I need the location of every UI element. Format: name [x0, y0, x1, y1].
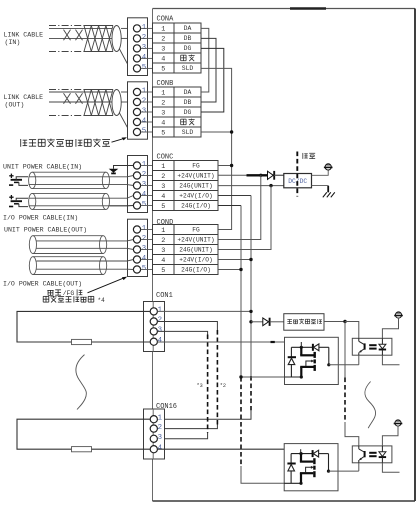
svg-text:1: 1 — [161, 227, 165, 235]
wire stubs COND strip to table — [141, 230, 153, 270]
svg-text:*2: *2 — [220, 383, 226, 389]
wire +24V(UNIT) from CONC to DC/DC with thick section — [218, 174, 284, 176]
svg-text:1: 1 — [142, 161, 147, 169]
internal power terminal symbol — [325, 164, 331, 170]
svg-text:UNIT POWER CABLE(IN): UNIT POWER CABLE(IN) — [3, 163, 82, 170]
svg-text:24G(I/O): 24G(I/O) — [181, 203, 211, 210]
MOSFET output wire to optocoupler emitter CON16 — [329, 470, 359, 472]
svg-text:3: 3 — [161, 247, 165, 255]
svg-text:3: 3 — [142, 245, 146, 253]
internal power terminal for CON1 LED — [395, 312, 401, 318]
diode D1 feeding DC/DC — [268, 171, 284, 180]
DC/DC output to internal power terminal — [312, 170, 329, 175]
wires cable to COND pins 4,5 — [107, 260, 134, 270]
svg-text:3: 3 — [161, 183, 165, 191]
table COND (FG +24V 24G) — [153, 225, 219, 275]
LINK CABLE (OUT) twisted pair cable — [49, 90, 133, 133]
svg-text:2: 2 — [142, 97, 146, 105]
svg-text:2: 2 — [158, 424, 162, 432]
junction CON1 pin1 — [249, 310, 252, 313]
svg-text:SLD: SLD — [182, 129, 194, 136]
svg-text:2: 2 — [161, 99, 165, 107]
optocoupler emitter lead CON1 — [358, 355, 360, 365]
svg-text:4: 4 — [161, 55, 165, 63]
battery wires to I/O power cable — [16, 198, 28, 206]
optocoupler for CON16 — [352, 446, 392, 463]
svg-text:3: 3 — [142, 107, 146, 115]
diode D2 from +24V rail — [249, 318, 283, 326]
svg-text:DB: DB — [184, 35, 192, 42]
CON1 pin2 wire with dashed continuation (*2) — [157, 322, 217, 429]
junction 24G(I/O) at COND pin5 — [218, 268, 243, 271]
LED cathode return wire CON16 — [382, 463, 399, 473]
svg-text:+24V(I/O): +24V(I/O) — [179, 193, 212, 200]
wire stubs CONA strip to table — [141, 28, 153, 68]
svg-text:DA: DA — [184, 25, 192, 32]
svg-text:1: 1 — [142, 24, 147, 32]
svg-text:2: 2 — [142, 235, 146, 243]
svg-text:DB: DB — [184, 99, 192, 106]
junction 24G(UNIT) — [269, 184, 272, 187]
svg-text:1: 1 — [161, 89, 165, 97]
svg-text:4: 4 — [161, 119, 165, 127]
wire power terminal to LED anode CON16 — [382, 426, 398, 446]
wire DB: CONA pin2 to CONB pin2 — [201, 38, 216, 102]
label power/FG direct-mount connector *4 (CJK) with arrow — [43, 277, 127, 304]
CON16 pin4 wire to output circuit — [157, 448, 300, 450]
svg-text:(OUT): (OUT) — [5, 102, 25, 109]
module boundary box — [153, 9, 416, 502]
earth terminal at CONC FG pin — [109, 166, 134, 174]
junction +24V(UNIT) — [259, 174, 262, 177]
svg-text:4: 4 — [142, 117, 147, 125]
MOSFET output wire to optocoupler emitter — [329, 364, 359, 366]
svg-text:FG: FG — [192, 227, 200, 234]
svg-text:FG: FG — [192, 163, 200, 170]
wire power terminal to LED anode CON1 — [382, 318, 398, 338]
constant voltage circuit box (CJK) — [284, 314, 324, 331]
CON1 pin4 wire to output circuit — [157, 341, 301, 343]
wires cable to CONC pins 2,3 — [110, 176, 134, 186]
wire DA: CONA pin1 to CONB pin1 — [201, 28, 209, 92]
svg-text:+24V(UNIT): +24V(UNIT) — [177, 237, 214, 244]
svg-text:4: 4 — [142, 54, 147, 62]
junction FG at CONC — [230, 164, 233, 167]
external load loop on CON16 pins 1-4 — [17, 419, 150, 449]
svg-text:CONA: CONA — [157, 16, 175, 24]
junction +24V(I/O) at COND pin4 — [218, 258, 253, 261]
svg-text:3: 3 — [161, 45, 165, 53]
svg-text:2: 2 — [158, 317, 162, 325]
CON1 pin1 wire to +24V rail — [157, 310, 251, 312]
connector strip CON1 (4 pins) — [144, 302, 165, 352]
svg-text:*3: *3 — [197, 383, 203, 389]
svg-text:*4: *4 — [98, 297, 106, 304]
24G(UNIT) rail down to COND pin3 — [218, 186, 271, 250]
LED cathode return wire CON1 — [382, 355, 399, 365]
label insulation (CJK) — [302, 153, 304, 159]
connector strip for CONA (5 pins) — [128, 18, 148, 76]
wire DG: CONA pin3 to CONB pin3 — [201, 48, 224, 112]
CON1 box bottom wire to 24G rail junction — [239, 375, 284, 378]
continuation squiggle between CON1 and CON16 loads (left) — [76, 355, 86, 410]
svg-text:5: 5 — [161, 203, 165, 211]
UNIT POWER CABLE(OUT) cylinder — [29, 236, 106, 254]
table CONC (FG +24V 24G) — [153, 161, 219, 211]
svg-text:4: 4 — [142, 191, 147, 199]
junction SLD at CONB — [230, 130, 233, 133]
table CONA (DA DB DG spare SLD) — [153, 23, 202, 73]
svg-text:24G(UNIT): 24G(UNIT) — [179, 183, 212, 190]
UNIT POWER CABLE(IN) cylinder — [29, 172, 110, 188]
svg-text:DA: DA — [184, 89, 192, 96]
svg-text:2: 2 — [142, 171, 146, 179]
wire 24G(UNIT) from CONC to DC/DC — [218, 185, 284, 187]
load component (fuse) on CON16 loop — [72, 447, 92, 452]
svg-text:UNIT POWER CABLE(OUT): UNIT POWER CABLE(OUT) — [4, 226, 87, 233]
continuation squiggle between CON1 and CON16 circuits (right) — [365, 382, 376, 429]
I/O POWER CABLE(OUT) cylinder — [29, 257, 106, 275]
wire stubs CONC strip to table — [141, 166, 153, 206]
svg-text:3: 3 — [158, 327, 162, 335]
svg-text:4: 4 — [161, 257, 165, 265]
battery for I/O POWER (IN) — [9, 195, 22, 207]
svg-text:I/O POWER CABLE(IN): I/O POWER CABLE(IN) — [3, 214, 78, 221]
svg-text:1: 1 — [161, 25, 165, 33]
svg-text:4: 4 — [158, 337, 163, 345]
table CONB (DA DB DG spare SLD) — [153, 87, 202, 137]
CON16 pin4 wire entry corner into box — [300, 449, 302, 453]
LINK CABLE (IN) twisted pair cable — [49, 26, 133, 69]
svg-text:5: 5 — [142, 127, 146, 135]
svg-text:2: 2 — [161, 35, 165, 43]
svg-text:2: 2 — [161, 173, 165, 181]
svg-text:24G(I/O): 24G(I/O) — [181, 267, 211, 274]
24G(I/O) rail from CONC down to CON16 — [218, 206, 300, 484]
svg-text:24G(UNIT): 24G(UNIT) — [179, 247, 212, 254]
svg-text:+24V(UNIT): +24V(UNIT) — [177, 173, 214, 180]
svg-text:4: 4 — [161, 193, 165, 201]
wires cable to CONC pins 4,5 — [110, 196, 134, 206]
chassis ground symbol — [323, 186, 335, 197]
internal power terminal for CON16 LED — [395, 420, 401, 426]
wire SLD/FG bus: CONA pin5 - CONB pin5 - CONC FG - COND FG — [201, 68, 232, 229]
svg-text:1: 1 — [142, 225, 147, 233]
insulation dashed line at DC/DC — [296, 152, 298, 197]
svg-text:LINK CABLE: LINK CABLE — [4, 94, 44, 101]
svg-text:1: 1 — [158, 414, 163, 422]
optocoupler emitter lead CON16 — [358, 463, 360, 471]
wire stubs CONB strip to table — [141, 92, 153, 132]
svg-text:4: 4 — [158, 444, 163, 452]
svg-text:5: 5 — [142, 265, 146, 273]
wire constant voltage box to optocoupler collector feed — [324, 320, 359, 339]
svg-text:5: 5 — [142, 64, 146, 72]
label communication direct-mount connector (CJK) with arrow — [21, 137, 127, 147]
external load loop on CON1 pins 1-4 — [17, 311, 150, 342]
load component (fuse) on CON1 loop — [72, 339, 92, 344]
+24V(I/O) rail from CONC down to CON16 — [157, 196, 251, 420]
connector strip CON16 (4 pins) — [144, 409, 165, 459]
+24V(UNIT) rail down to COND pin2 — [218, 175, 261, 239]
svg-text:4: 4 — [142, 255, 147, 263]
DC/DC output to chassis ground — [312, 186, 329, 193]
output MOSFET protection circuit box for CON1 — [285, 337, 339, 384]
svg-text:LINK CABLE: LINK CABLE — [4, 32, 44, 39]
svg-text:3: 3 — [161, 109, 165, 117]
svg-text:5: 5 — [161, 267, 165, 275]
svg-text:1: 1 — [161, 163, 165, 171]
wires cable to COND pins 2,3 — [107, 240, 134, 250]
connector strip for COND (5 pins) — [128, 219, 148, 276]
svg-text:(IN): (IN) — [5, 39, 21, 46]
svg-text:5: 5 — [142, 201, 146, 209]
svg-text:1: 1 — [142, 87, 147, 95]
CON1 pin3 wire with dashed continuation (*3) — [157, 331, 207, 438]
svg-text:I/O POWER CABLE(OUT): I/O POWER CABLE(OUT) — [3, 280, 82, 287]
svg-text:5: 5 — [161, 129, 165, 137]
CON1 pin4 wire entry corner into box — [300, 342, 302, 347]
svg-text:2: 2 — [142, 34, 146, 42]
optocoupler for CON1 — [352, 338, 392, 355]
svg-text:3: 3 — [158, 434, 162, 442]
svg-text:SLD: SLD — [182, 65, 194, 72]
svg-text:5: 5 — [161, 65, 165, 73]
svg-text:2: 2 — [161, 237, 165, 245]
battery wires to unit power cable — [16, 177, 28, 186]
svg-text:DG: DG — [184, 45, 192, 52]
svg-text:DG: DG — [184, 109, 192, 116]
svg-text:CON1: CON1 — [156, 292, 173, 300]
I/O POWER CABLE(IN) cylinder — [29, 193, 110, 209]
connector strip for CONB (5 pins) — [128, 82, 148, 139]
svg-text:3: 3 — [142, 44, 146, 52]
output MOSFET protection circuit box for CON16 — [284, 444, 338, 491]
collector feed rail dashed continuation to CON16 (*1) — [345, 322, 359, 446]
battery for UNIT POWER (IN) — [9, 174, 22, 186]
svg-text:3: 3 — [142, 181, 146, 189]
svg-text:1: 1 — [158, 307, 163, 315]
connector strip for CONC (5 pins) — [128, 156, 148, 213]
DC/DC converter box — [284, 174, 312, 188]
svg-text:+24V(I/O): +24V(I/O) — [179, 257, 212, 264]
svg-text:/FG: /FG — [63, 290, 75, 297]
